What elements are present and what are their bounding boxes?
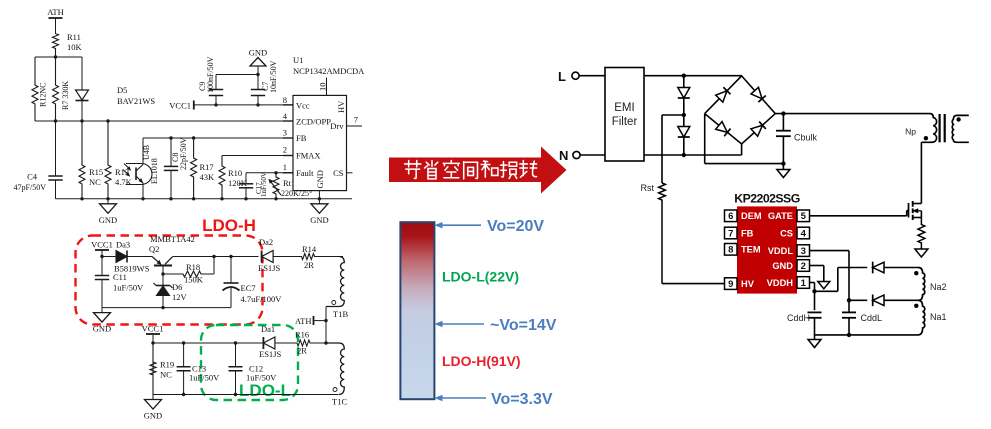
U1 GND pin to bus: [318, 191, 320, 199]
ground open triangle under Cbulk: [782, 164, 784, 170]
bridge rectifier: [705, 76, 776, 144]
svg-text:NC: NC: [89, 177, 101, 187]
pin 7 FB: [725, 227, 738, 239]
wire primary to MOSFET drain: [920, 142, 922, 203]
svg-text:47pF/50V: 47pF/50V: [14, 183, 47, 192]
winding Na1: [918, 300, 925, 335]
svg-text:100nF/50V: 100nF/50V: [206, 56, 215, 93]
svg-text:HV: HV: [336, 100, 346, 113]
svg-text:6: 6: [728, 211, 733, 222]
svg-text:1uF/50V: 1uF/50V: [113, 283, 144, 293]
svg-text:Np: Np: [905, 127, 916, 137]
svg-text:~Vo=14V: ~Vo=14V: [490, 317, 557, 334]
svg-text:D5: D5: [117, 85, 127, 95]
wire FB line to pin 3: [143, 137, 293, 139]
svg-text:Vcc: Vcc: [296, 100, 310, 110]
svg-text:EMI: EMI: [614, 102, 634, 114]
LDO-L bottom bus: [153, 394, 339, 396]
svg-text:Drv: Drv: [330, 121, 344, 131]
svg-text:DEM: DEM: [741, 211, 762, 221]
svg-text:ZCD/OPP: ZCD/OPP: [296, 116, 331, 126]
pin 7 Drv stub: [347, 125, 363, 127]
svg-text:Rst: Rst: [641, 183, 655, 193]
resistor R11: [53, 33, 59, 57]
chinese text save space and loss (drawn strokes): [405, 161, 421, 179]
pin 4 CS: [797, 227, 810, 239]
svg-text:150K: 150K: [184, 275, 204, 285]
svg-text:Da3: Da3: [116, 240, 130, 250]
svg-text:R17: R17: [200, 162, 214, 172]
node junction below R11: [54, 55, 57, 58]
svg-text:C11: C11: [113, 272, 127, 282]
wire VCC1 to pin 8: [194, 104, 293, 106]
svg-text:3: 3: [283, 128, 287, 138]
svg-text:U1: U1: [293, 55, 303, 65]
capacitor C17 1nF/50V: [245, 173, 247, 184]
svg-text:GND: GND: [310, 215, 328, 225]
wire GND pin2 to ground: [810, 265, 824, 267]
pin 6 DEM: [725, 210, 738, 222]
winding T1B: [326, 257, 344, 307]
svg-text:R7 330K: R7 330K: [61, 81, 70, 110]
svg-text:Fault: Fault: [296, 168, 314, 178]
resistor R15 NC: [79, 121, 85, 199]
ground symbol up (top): [257, 66, 259, 75]
svg-text:8: 8: [283, 95, 287, 105]
svg-text:LDO-L: LDO-L: [239, 381, 291, 400]
svg-text:9: 9: [728, 279, 733, 290]
svg-text:CddH: CddH: [787, 313, 810, 323]
bridge diode bottom-left: [716, 122, 731, 137]
capacitor Cbulk: [782, 114, 784, 131]
svg-text:R15: R15: [89, 167, 103, 177]
svg-text:LDO-L(22V): LDO-L(22V): [442, 269, 519, 285]
phase dot Np: [924, 136, 928, 140]
svg-text:N: N: [559, 148, 568, 163]
svg-text:Da1: Da1: [261, 324, 275, 334]
capacitor CddH: [808, 311, 822, 313]
svg-text:Filter: Filter: [612, 116, 638, 128]
wire Rst to HV pin 9: [662, 283, 725, 285]
diode Da2 ES1JS: [261, 251, 263, 263]
ground open triangle aux: [814, 335, 816, 340]
svg-text:T1C: T1C: [332, 397, 347, 407]
svg-text:VCC1: VCC1: [142, 324, 164, 334]
svg-text:R10: R10: [228, 168, 242, 178]
svg-text:R16: R16: [295, 330, 309, 340]
wire VDDH to upper diode: [815, 290, 838, 292]
svg-text:NC: NC: [160, 370, 172, 380]
svg-text:2: 2: [801, 261, 806, 272]
bridge diode top-left: [716, 87, 731, 102]
pin 3 VDDL: [797, 245, 810, 257]
svg-text:ATH: ATH: [295, 316, 312, 326]
phase dot Na1: [914, 304, 918, 308]
capacitor C13 1uF/50V: [183, 343, 185, 367]
pin CS stub: [347, 172, 353, 174]
svg-text:2R: 2R: [297, 346, 307, 356]
svg-text:GND: GND: [93, 324, 111, 334]
svg-text:R11: R11: [67, 32, 81, 42]
wire bridge bottom to N rail: [741, 144, 743, 155]
svg-text:R12NC: R12NC: [39, 83, 48, 107]
diode DaH (to Na2): [872, 262, 874, 274]
svg-text:HV: HV: [741, 279, 755, 289]
ground symbol under U1: [318, 199, 320, 204]
svg-text:GND: GND: [772, 261, 793, 271]
svg-text:CS: CS: [333, 168, 344, 178]
svg-text:GND: GND: [315, 170, 325, 188]
phase dot Na2: [914, 271, 918, 275]
svg-text:R18: R18: [186, 262, 200, 272]
diode Da1 ES1JS: [262, 337, 264, 349]
svg-text:MMBT1A42: MMBT1A42: [150, 234, 195, 244]
gradient voltage bar: [400, 222, 434, 399]
EMI Filter box: [605, 68, 644, 162]
svg-text:10: 10: [318, 83, 328, 92]
svg-text:Cbulk: Cbulk: [794, 133, 818, 143]
svg-text:1nF/50V: 1nF/50V: [260, 172, 268, 197]
resistor R17 43K: [191, 138, 197, 199]
pin 8 TEM: [725, 244, 738, 256]
wire Fault line to pin 1: [246, 172, 293, 174]
svg-text:4.7K: 4.7K: [115, 177, 133, 187]
ground symbol LDO-L: [152, 395, 154, 400]
svg-text:R19: R19: [160, 360, 174, 370]
resistor R7 330K: [53, 57, 59, 121]
svg-text:GATE: GATE: [768, 211, 793, 221]
svg-text:VCC1: VCC1: [169, 100, 191, 110]
svg-text:GND: GND: [144, 411, 162, 421]
wire L rail: [644, 75, 742, 77]
svg-text:U4B: U4B: [142, 145, 151, 160]
svg-text:LDO-H(91V): LDO-H(91V): [442, 353, 521, 369]
diode DaL (to Na1): [849, 299, 867, 301]
svg-text:FB: FB: [741, 228, 754, 238]
svg-text:GND: GND: [249, 48, 267, 58]
svg-text:5: 5: [801, 211, 807, 222]
pin 9 HV: [725, 278, 738, 290]
resistor R16 2R: [296, 340, 326, 346]
svg-text:Na2: Na2: [930, 282, 947, 292]
wire to Rst: [662, 114, 684, 116]
svg-text:10K: 10K: [67, 42, 83, 52]
diode Da3 B5819WS: [102, 256, 116, 258]
svg-text:43K: 43K: [200, 172, 216, 182]
svg-text:LDO-H: LDO-H: [202, 216, 256, 235]
resistor R18 150K: [163, 271, 214, 277]
capacitor C11 1uF/50V: [101, 274, 103, 277]
capacitor C8 22pF/50V: [170, 138, 172, 166]
svg-text:12V: 12V: [172, 292, 188, 302]
svg-text:EC7: EC7: [241, 283, 256, 293]
svg-text:D6: D6: [172, 282, 182, 292]
arrow Vo=3.3V: [441, 397, 486, 399]
wire VDDL pin3 down: [810, 250, 850, 252]
svg-text:L: L: [558, 69, 566, 84]
node mid diode stack: [682, 113, 686, 117]
wire DC+ rail: [775, 113, 930, 115]
svg-text:1: 1: [801, 278, 807, 289]
pin 2 GND: [797, 260, 810, 272]
ground bus (top section): [56, 198, 353, 200]
auxiliary ground bus: [815, 334, 919, 336]
transformer secondary: [952, 115, 969, 142]
svg-text:R14: R14: [302, 244, 317, 254]
capacitor C4 47pF/50V: [55, 121, 57, 176]
svg-text:T1B: T1B: [333, 309, 348, 319]
winding T1C: [326, 343, 344, 395]
resistor R10 120K: [219, 156, 225, 199]
pin 1 VDDH: [797, 277, 810, 289]
svg-text:8: 8: [728, 245, 733, 256]
wire FMAX line to pin 2: [222, 155, 293, 157]
svg-text:NCP1342AMDCDA: NCP1342AMDCDA: [293, 66, 365, 76]
svg-text:Vo=3.3V: Vo=3.3V: [491, 391, 553, 408]
ground symbol left: [107, 199, 109, 204]
svg-text:BAV21WS: BAV21WS: [117, 96, 155, 106]
svg-text:CS: CS: [780, 228, 793, 238]
svg-text:1: 1: [283, 162, 287, 172]
op IC U1 NCP1342AMDCDA body: [293, 95, 347, 190]
pin 5 GATE: [797, 210, 810, 222]
wire GATE pin5 to gate: [810, 215, 907, 217]
svg-text:VCC1: VCC1: [91, 240, 113, 250]
wire N to EMI: [580, 154, 605, 156]
svg-text:2: 2: [283, 145, 287, 155]
arrow ~Vo=14V: [441, 323, 484, 325]
svg-text:CddL: CddL: [861, 313, 883, 323]
arrow Vo=20V: [441, 224, 481, 226]
svg-text:KP2202SSG: KP2202SSG: [734, 192, 799, 206]
svg-text:ES1JS: ES1JS: [259, 349, 281, 359]
wire ZCD bus to pin 4: [35, 120, 293, 122]
svg-text:ES1JS: ES1JS: [258, 263, 280, 273]
resistor Rst: [659, 183, 666, 284]
wire N rail: [644, 154, 742, 156]
ground symbol LDO-H: [101, 308, 103, 313]
LDO-L dashed outline: [201, 325, 298, 400]
svg-text:Vo=20V: Vo=20V: [487, 218, 544, 235]
source sense resistor: [918, 218, 925, 250]
svg-text:4.7uF/100V: 4.7uF/100V: [241, 294, 283, 304]
svg-text:22pF/50V: 22pF/50V: [179, 137, 188, 170]
svg-text:VDDL: VDDL: [768, 246, 794, 256]
phase dot secondary: [956, 117, 960, 121]
capacitor C7 10nF/50V: [257, 96, 259, 105]
svg-text:3: 3: [801, 246, 806, 257]
svg-text:Da2: Da2: [259, 237, 273, 247]
ground under MOSFET: [915, 249, 928, 257]
wire cap tops: [216, 74, 258, 76]
pin 10 HV stub: [326, 78, 328, 96]
red arrow banner: [389, 147, 567, 194]
svg-text:7: 7: [728, 228, 733, 239]
svg-text:2R: 2R: [304, 260, 314, 270]
resistor R14 2R: [301, 254, 343, 260]
wire L to EMI: [579, 75, 605, 77]
svg-text:4: 4: [801, 228, 807, 239]
zener D6 12V: [162, 274, 164, 285]
svg-text:VDDH: VDDH: [767, 278, 794, 288]
svg-text:10nF/50V: 10nF/50V: [269, 60, 278, 93]
svg-text:Na1: Na1: [930, 312, 947, 322]
electrolytic EC7 4.7uF/100V: [230, 257, 232, 284]
svg-text:1uF/50V: 1uF/50V: [189, 373, 220, 383]
svg-text:7: 7: [354, 115, 358, 125]
wire LDO-L top rail: [153, 342, 263, 344]
bridge diode top-right: [751, 87, 766, 102]
diode stack lower: [678, 127, 690, 138]
transformer primary Np: [921, 114, 936, 143]
svg-text:C4: C4: [27, 172, 38, 182]
resistor R12 (NC): [32, 57, 38, 121]
winding Na2: [918, 268, 925, 301]
optocoupler U4B EL1018: [126, 164, 152, 185]
svg-text:FB: FB: [296, 133, 307, 143]
svg-text:Q2: Q2: [149, 244, 159, 254]
capacitor C9 100nF/50V: [215, 96, 217, 105]
svg-text:FMAX: FMAX: [296, 151, 321, 161]
wire VDDH pin1 down: [810, 282, 815, 284]
svg-text:TEM: TEM: [741, 245, 761, 255]
transformer core: [938, 114, 940, 142]
svg-text:ATH: ATH: [47, 7, 64, 17]
svg-text:120K: 120K: [228, 178, 248, 188]
MOSFET Q1: [908, 203, 910, 218]
svg-text:1uF/50V: 1uF/50V: [246, 373, 277, 383]
resistor R19 NC: [150, 343, 156, 395]
svg-text:GND: GND: [99, 215, 117, 225]
diode D5 BAV21WS: [81, 57, 83, 90]
diode stack upper: [683, 76, 685, 155]
LDO-H ground bus: [102, 307, 231, 309]
thermistor Rt1 220K/25: [273, 173, 279, 199]
bridge diode bottom-right: [751, 122, 766, 137]
capacitor C12 1uF/50V: [235, 343, 237, 367]
wire bridge left corner to gnd rail: [704, 114, 706, 164]
capacitor CddL: [842, 311, 856, 313]
resistor R13 4.7K: [105, 121, 111, 199]
LDO-H dashed outline: [76, 236, 263, 325]
svg-text:EL1018: EL1018: [150, 158, 159, 184]
